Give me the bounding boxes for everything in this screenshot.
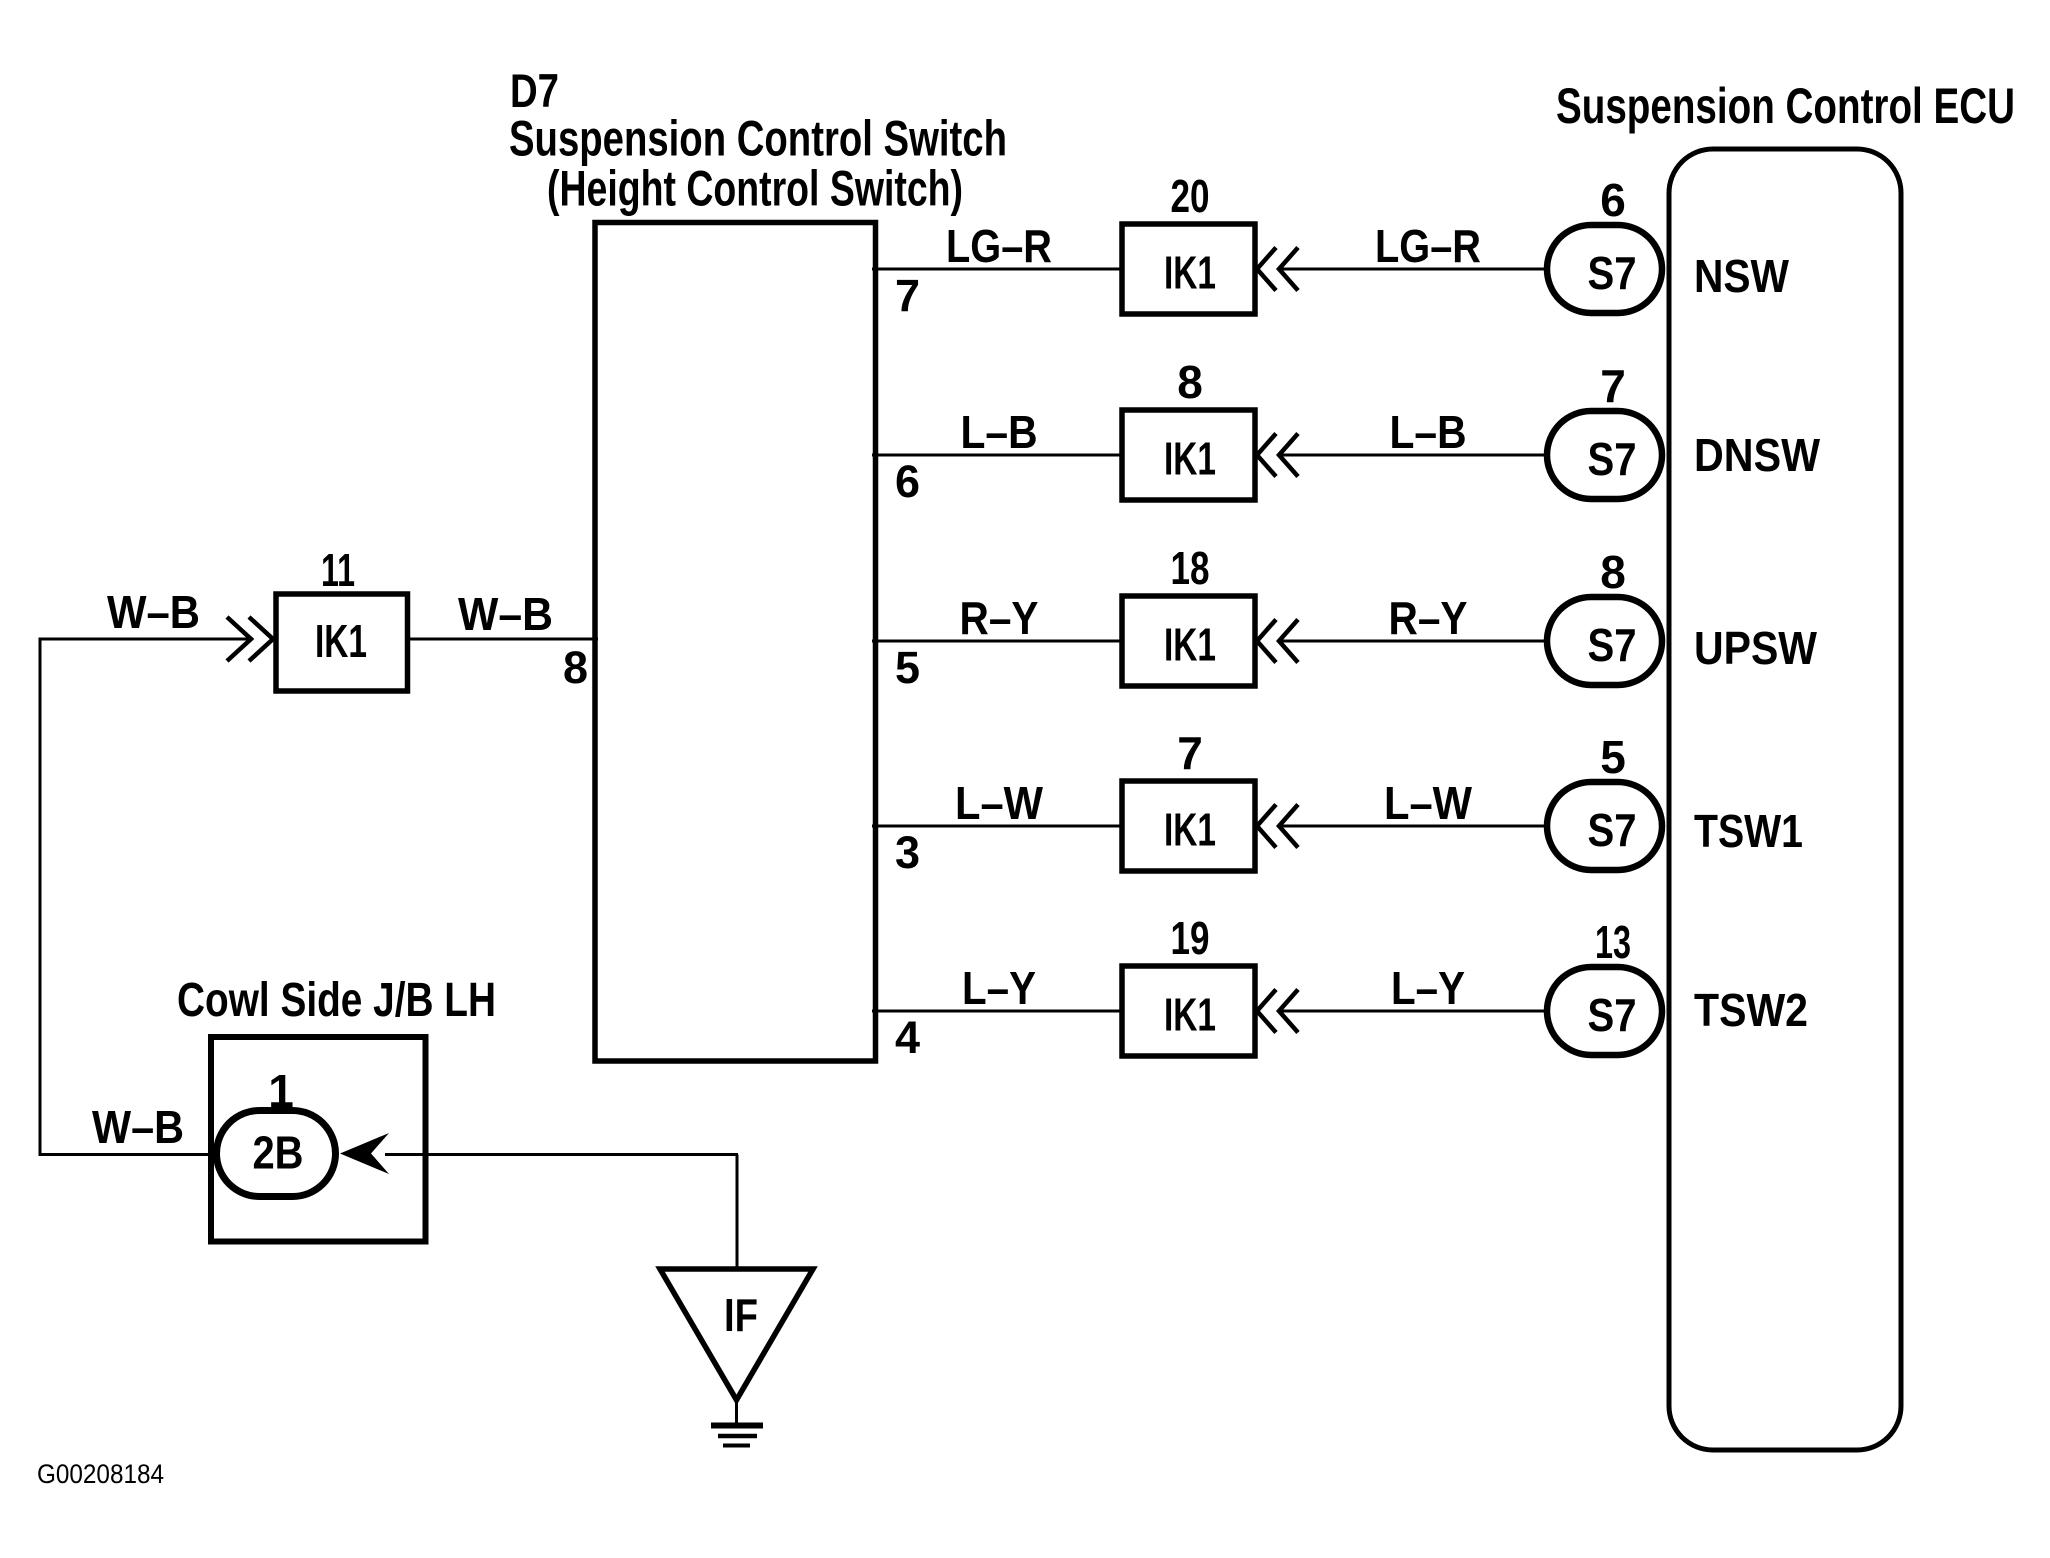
svg-text:S7: S7 (1588, 247, 1637, 299)
svg-text:DNSW: DNSW (1694, 429, 1821, 481)
svg-text:IK1: IK1 (1164, 804, 1216, 856)
svg-text:8: 8 (1600, 546, 1626, 598)
svg-text:IK1: IK1 (1164, 247, 1216, 299)
svg-text:UPSW: UPSW (1694, 622, 1818, 674)
svg-text:S7: S7 (1588, 989, 1637, 1041)
svg-text:L–W: L–W (1384, 777, 1473, 829)
svg-text:13: 13 (1595, 916, 1631, 968)
svg-text:8: 8 (1177, 356, 1203, 408)
svg-text:18: 18 (1171, 542, 1210, 594)
svg-text:IK1: IK1 (1164, 989, 1216, 1041)
svg-text:5: 5 (1600, 731, 1626, 783)
svg-text:LG–R: LG–R (1375, 220, 1481, 272)
svg-text:W–B: W–B (107, 586, 200, 638)
svg-text:L–Y: L–Y (962, 962, 1036, 1014)
svg-text:L–W: L–W (955, 777, 1044, 829)
svg-text:11: 11 (321, 544, 355, 596)
svg-text:6: 6 (895, 456, 920, 507)
svg-text:1: 1 (268, 1065, 294, 1117)
svg-text:D7: D7 (510, 64, 559, 117)
svg-text:7: 7 (1600, 360, 1626, 412)
svg-text:Suspension Control Switch: Suspension Control Switch (509, 111, 1007, 167)
svg-text:2B: 2B (253, 1127, 304, 1179)
svg-text:IK1: IK1 (1164, 433, 1216, 485)
svg-text:4: 4 (895, 1012, 920, 1063)
svg-text:(Height Control Switch): (Height Control Switch) (547, 161, 963, 217)
svg-text:S7: S7 (1588, 619, 1637, 671)
svg-text:7: 7 (1177, 727, 1203, 779)
svg-text:TSW1: TSW1 (1694, 805, 1803, 857)
svg-text:IF: IF (724, 1289, 758, 1341)
svg-text:L–B: L–B (1390, 406, 1467, 458)
svg-text:NSW: NSW (1694, 250, 1790, 302)
svg-text:L–Y: L–Y (1391, 962, 1465, 1014)
svg-text:R–Y: R–Y (960, 592, 1039, 644)
svg-text:LG–R: LG–R (946, 220, 1052, 272)
svg-text:TSW2: TSW2 (1694, 984, 1808, 1036)
svg-text:IK1: IK1 (1164, 619, 1216, 671)
svg-text:20: 20 (1171, 170, 1210, 222)
svg-text:6: 6 (1600, 174, 1626, 226)
svg-text:W–B: W–B (92, 1101, 184, 1153)
svg-text:Suspension Control ECU: Suspension Control ECU (1556, 78, 2015, 134)
svg-text:R–Y: R–Y (1389, 592, 1468, 644)
svg-text:S7: S7 (1588, 804, 1637, 856)
svg-text:L–B: L–B (961, 406, 1038, 458)
svg-text:S7: S7 (1588, 433, 1637, 485)
svg-text:8: 8 (563, 642, 588, 693)
svg-text:7: 7 (895, 270, 920, 321)
svg-text:IK1: IK1 (315, 615, 367, 667)
svg-text:W–B: W–B (458, 588, 553, 640)
svg-text:3: 3 (895, 827, 920, 878)
svg-text:Cowl Side J/B LH: Cowl Side J/B LH (177, 974, 496, 1027)
svg-text:G00208184: G00208184 (37, 1459, 164, 1489)
svg-text:19: 19 (1171, 912, 1210, 964)
svg-text:5: 5 (895, 642, 920, 693)
